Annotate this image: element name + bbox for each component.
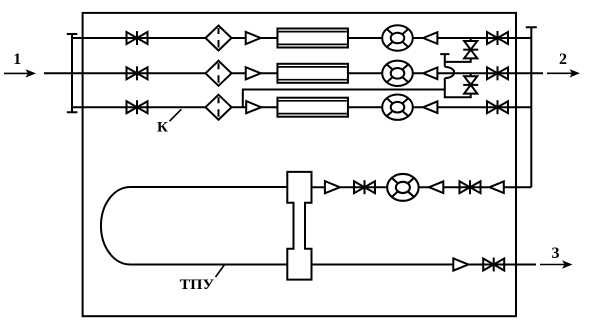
flowmeter line2 — [382, 61, 413, 86]
filter line1 — [206, 26, 232, 51]
flow nozzle prover return — [453, 258, 468, 270]
filter line2 — [206, 61, 232, 86]
svg-text:3: 3 — [552, 245, 560, 262]
valve prover feed outlet — [460, 180, 481, 194]
inlet manifold (capped header) — [67, 34, 78, 112]
flow nozzle prover feed — [325, 181, 340, 193]
direction cone line2 — [423, 68, 437, 80]
wire line 1 — [72, 37, 531, 39]
outlet manifold (capped header) — [526, 27, 537, 187]
wire K bypass line — [243, 90, 445, 108]
prover U-loop bottom run — [130, 264, 287, 266]
wire V1 stub from line 1 — [470, 38, 472, 41]
wire line 3 — [72, 106, 531, 108]
svg-text:2: 2 — [559, 51, 567, 68]
drain header cap — [440, 54, 449, 67]
TPU pointer line — [216, 265, 225, 277]
direction cone line1 — [423, 32, 437, 44]
wire inlet line / line 2 — [44, 72, 543, 74]
valve prover return — [483, 258, 504, 272]
svg-text:ТПУ: ТПУ — [180, 277, 215, 293]
direction cone line3 — [423, 101, 437, 113]
prover U-loop top run — [130, 186, 287, 188]
wire drain header lower — [445, 78, 471, 97]
flow straightener line1 — [277, 29, 348, 48]
direction cone prover feed A — [429, 181, 443, 193]
wire V2 stub from line 2 — [470, 73, 472, 76]
valve line1 inlet — [127, 31, 148, 45]
wire prover feed line — [312, 186, 532, 188]
flow straightener line2 — [277, 64, 348, 83]
inlet arrow 1 — [4, 69, 36, 77]
K pointer line — [170, 109, 182, 121]
installation boundary box — [83, 13, 516, 316]
prover U-loop left bend — [101, 187, 130, 265]
flow nozzle line2 — [246, 67, 261, 79]
outlet arrow 3 — [540, 260, 573, 268]
direction cone prover feed B — [490, 181, 504, 193]
valve line1 outlet — [487, 31, 508, 45]
valve line2 outlet — [487, 66, 508, 80]
drain valve V1 — [463, 41, 478, 58]
flow nozzle line3 — [246, 101, 261, 113]
outlet arrow 2 — [547, 69, 580, 77]
valve line3 inlet — [127, 100, 148, 114]
drain crossing bridge over line 2 — [445, 67, 454, 78]
flow nozzle line1 — [246, 32, 261, 44]
flowmeter prover feed — [387, 174, 419, 201]
svg-text:1: 1 — [13, 51, 21, 68]
drain valve V2 — [463, 76, 478, 93]
prover detector block — [287, 172, 311, 280]
flowmeter line3 — [382, 95, 413, 120]
valve line2 inlet — [127, 66, 148, 80]
flow straightener line3 — [277, 98, 348, 117]
wire drain branch from valve V1 — [445, 58, 471, 62]
wire prover return line — [312, 264, 537, 266]
svg-text:К: К — [157, 119, 168, 135]
filter line3 — [206, 95, 232, 120]
valve prover feed — [354, 180, 375, 194]
flowmeter line1 — [382, 25, 413, 50]
valve line3 outlet — [487, 100, 508, 114]
